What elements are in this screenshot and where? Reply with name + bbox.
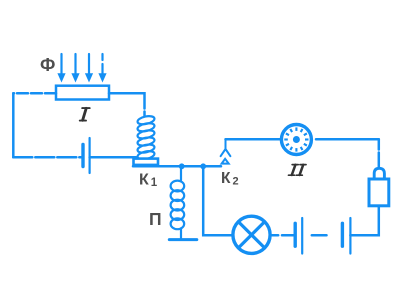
wire: right rail down to bell xyxy=(378,139,381,168)
label I xyxy=(80,108,90,121)
coil П (electromagnet) xyxy=(171,166,185,238)
wire: left rail vertical xyxy=(12,93,15,157)
battery G1 long plate xyxy=(88,138,90,173)
wire: photocell right to relay coil top xyxy=(109,93,145,115)
wire: lamp to node B branch xyxy=(203,166,233,235)
node A (to coil П) xyxy=(179,163,185,169)
motor II xyxy=(281,125,311,155)
svg-text:Ф: Ф xyxy=(40,55,55,75)
svg-text:К1: К1 xyxy=(139,172,158,189)
bell (right component) xyxy=(369,168,389,206)
wire: photocell left to left rail xyxy=(13,92,56,95)
wire: motor II to right rail xyxy=(316,138,379,141)
battery G2 long plate xyxy=(349,218,351,254)
wire: bell to bottom rail corner xyxy=(350,206,378,235)
node B (to lamp branch) xyxy=(200,163,206,169)
battery G1b short plate xyxy=(294,223,297,246)
wire: K1 bar to K2 contact xyxy=(133,165,221,168)
lamp xyxy=(233,216,270,253)
battery G1b long plate xyxy=(301,218,303,254)
label II xyxy=(289,165,307,176)
battery G1 short plate xyxy=(81,145,84,167)
core plate of П xyxy=(169,238,197,241)
wire: dashed link between batteries xyxy=(312,234,327,237)
svg-text:П: П xyxy=(149,209,162,229)
switch K2 xyxy=(221,139,231,163)
light arrows xyxy=(57,54,106,83)
svg-text:К2: К2 xyxy=(221,170,239,187)
wire: left rail to battery xyxy=(13,156,83,159)
relay coil (solenoid above K1) xyxy=(137,115,155,161)
battery G2 short plate xyxy=(341,223,344,246)
wire: lamp to battery xyxy=(272,234,295,237)
wire: battery to relay bar xyxy=(90,156,136,159)
wire: K2 to motor II xyxy=(226,138,282,141)
armature bar K1 xyxy=(134,159,159,165)
photocell I xyxy=(56,86,109,100)
